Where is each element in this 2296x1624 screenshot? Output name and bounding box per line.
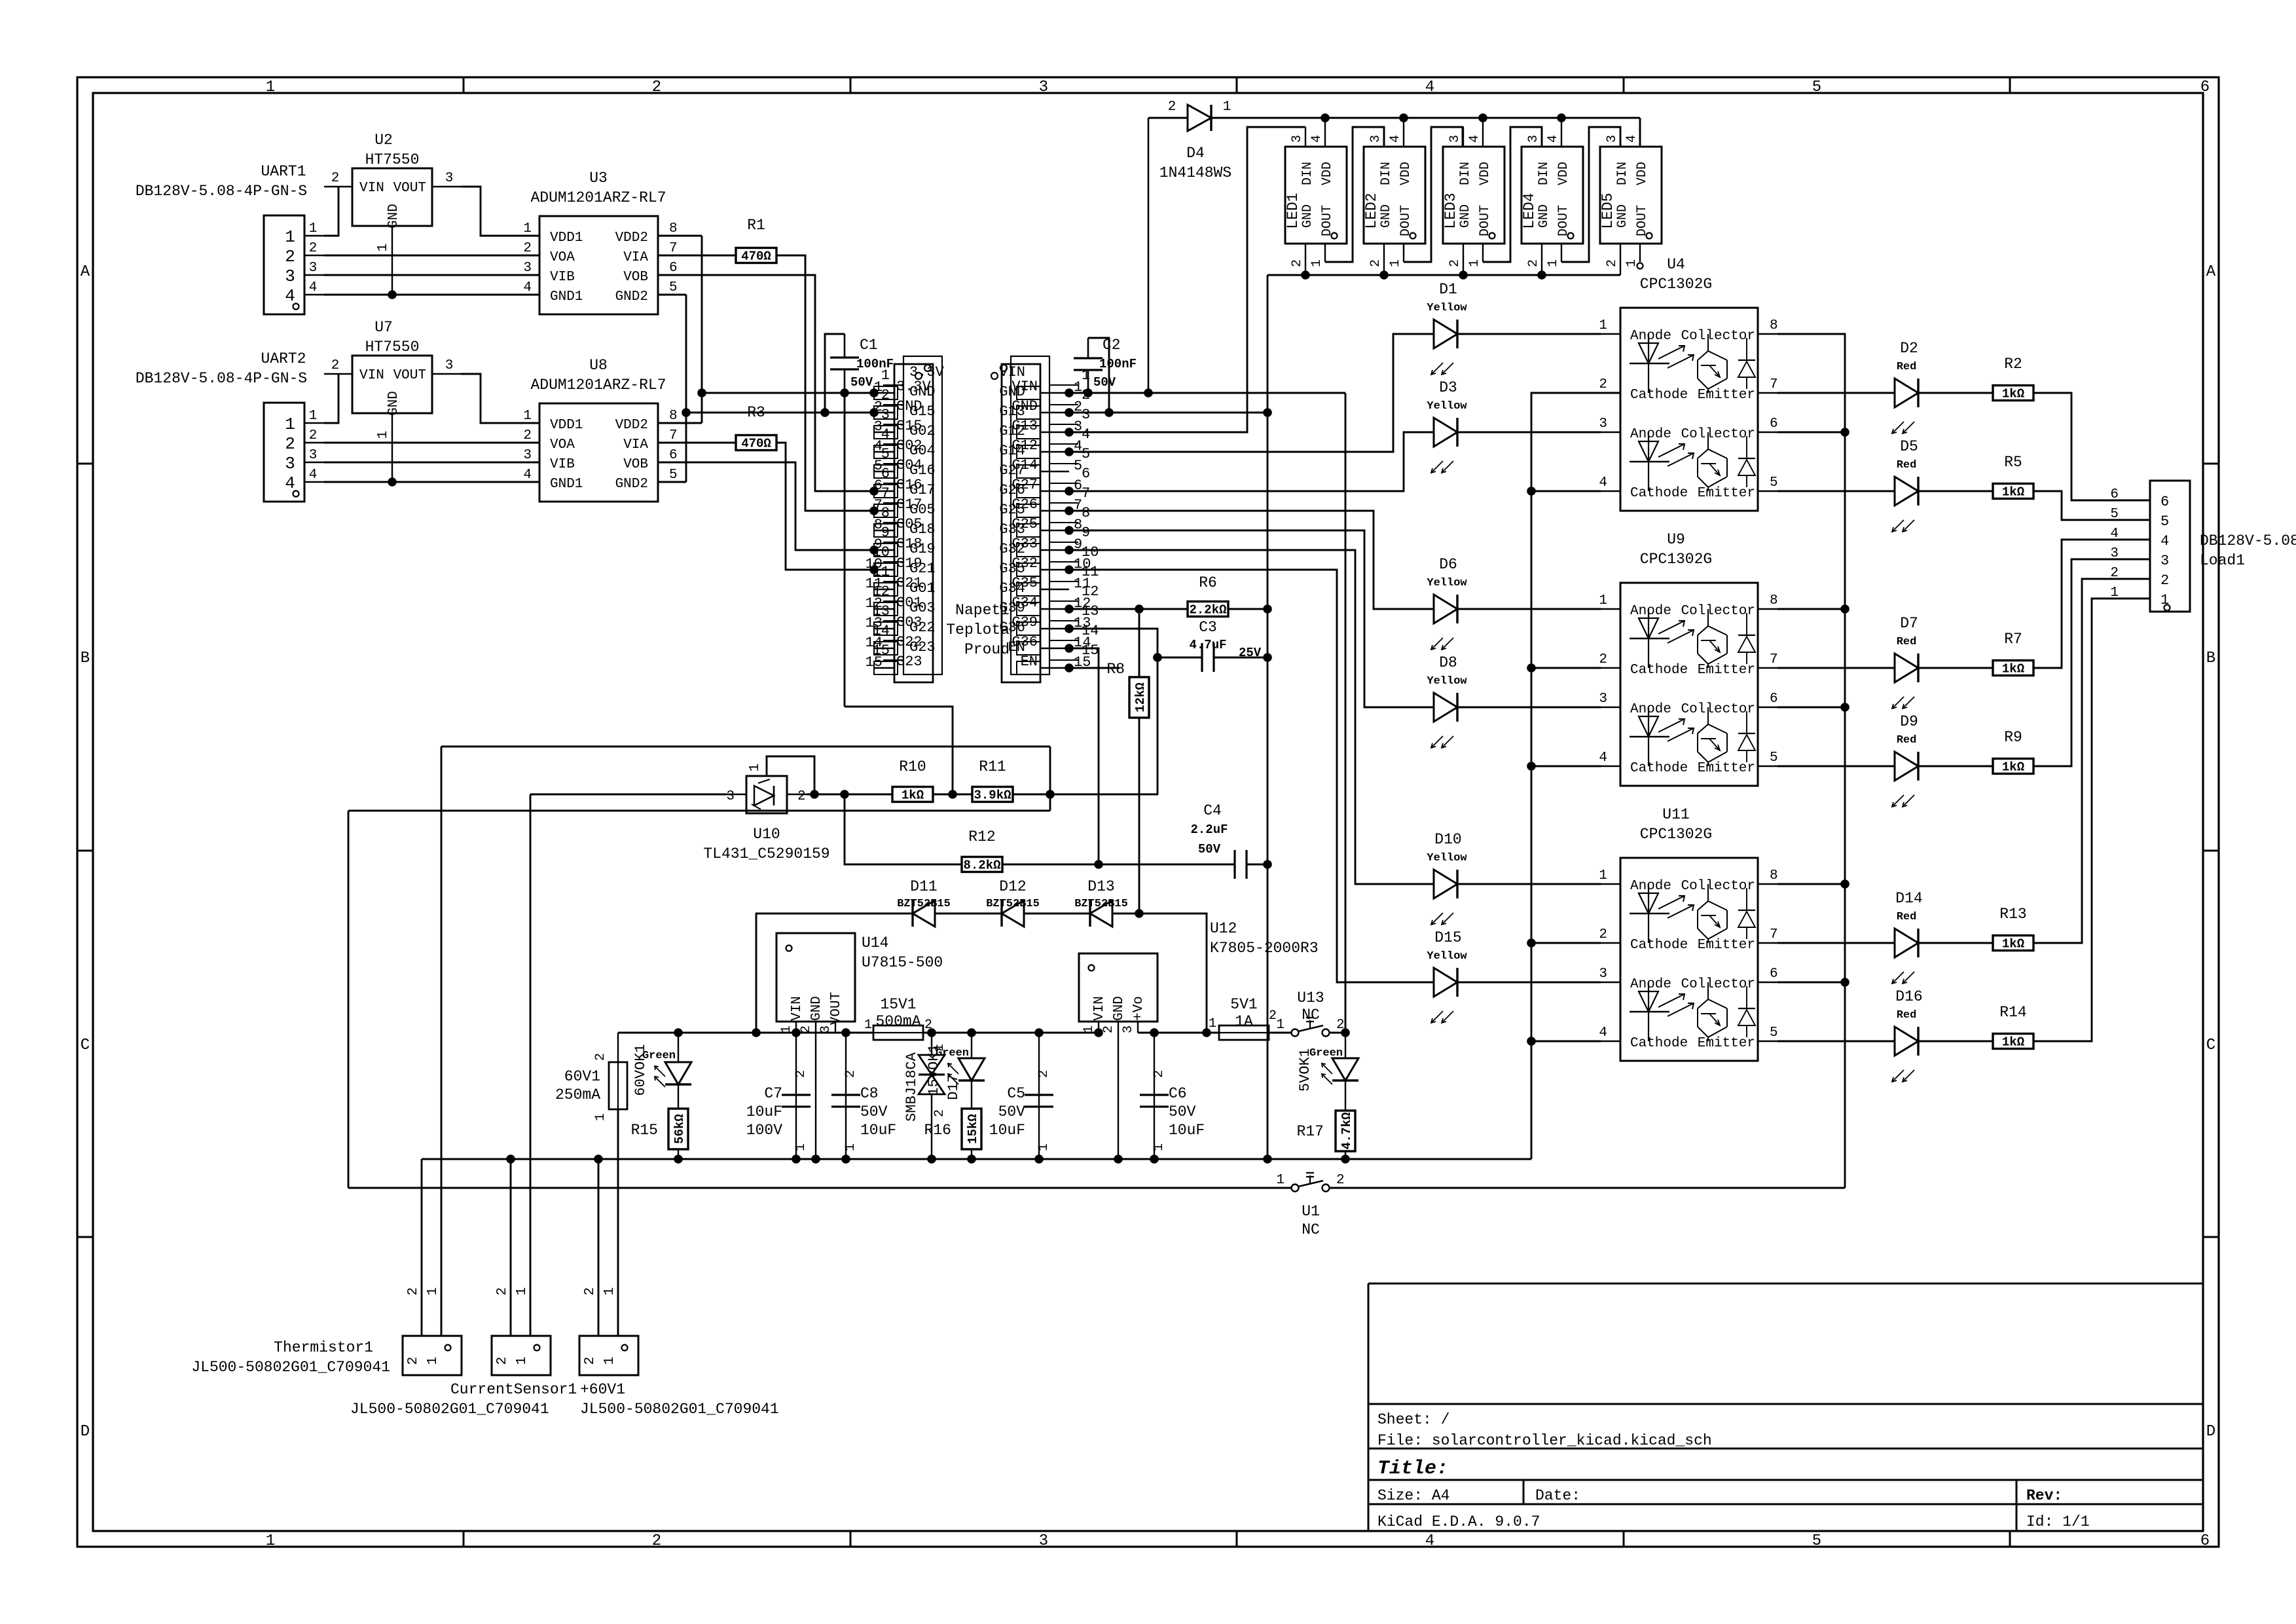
svg-text:1: 1 (376, 431, 391, 439)
svg-text:50V: 50V (998, 1103, 1026, 1120)
svg-text:1: 1 (748, 764, 763, 772)
diode D13 BZT52B15 (1090, 900, 1112, 927)
wire LED1 DOUT to LED2 DIN (1325, 127, 1384, 262)
svg-text:BZT52B15: BZT52B15 (1074, 898, 1128, 910)
svg-text:1: 1 (1223, 100, 1231, 115)
frame row ticks (77, 463, 93, 465)
capacitor C4 2.2uF 50V (1233, 850, 1235, 879)
svg-text:1kΩ: 1kΩ (2002, 760, 2024, 775)
svg-text:VOA: VOA (550, 250, 575, 265)
svg-text:13: 13 (873, 603, 890, 619)
svg-text:3: 3 (523, 261, 532, 276)
svg-text:1: 1 (266, 1532, 275, 1550)
LED module LED3 (1443, 147, 1504, 244)
svg-text:VDD: VDD (1398, 162, 1413, 185)
svg-text:U2: U2 (374, 132, 393, 149)
svg-text:Emitter: Emitter (1698, 663, 1755, 678)
pin 5 right header (1040, 471, 1069, 472)
diode D12 BZT52B15 (1002, 900, 1024, 927)
svg-text:10: 10 (1082, 544, 1099, 561)
svg-text:10uF: 10uF (989, 1122, 1025, 1139)
svg-text:15: 15 (1082, 642, 1099, 659)
pin 8 right header (1040, 530, 1069, 531)
svg-text:2: 2 (793, 1070, 809, 1078)
pin 5 left header (874, 471, 894, 472)
svg-text:10uF: 10uF (1169, 1122, 1205, 1139)
wire UART1.2 to U3 VOA (324, 255, 539, 257)
svg-text:2: 2 (523, 241, 532, 256)
wire D10 to U11.1 (1457, 883, 1601, 885)
svg-text:VOUT: VOUT (393, 368, 426, 383)
wire 5V vertical to U13 (1345, 393, 1347, 1033)
svg-text:4: 4 (1467, 135, 1482, 143)
connector +60V1 (579, 1336, 638, 1375)
svg-text:G01: G01 (909, 580, 936, 597)
svg-text:Proud: Proud (964, 641, 1010, 658)
svg-text:C1: C1 (860, 337, 878, 354)
wire LED2 DOUT to LED3 DIN (1404, 127, 1463, 262)
svg-text:3: 3 (1368, 135, 1383, 143)
wire U11.8 to collector bus (1777, 883, 1845, 885)
svg-text:C4: C4 (1203, 802, 1222, 819)
svg-text:56kΩ: 56kΩ (672, 1114, 687, 1144)
svg-text:Red: Red (1897, 636, 1917, 648)
svg-text:1: 1 (793, 1143, 809, 1151)
wire R14 to Load (2033, 599, 2150, 1041)
LED D7 Red (1777, 667, 1895, 669)
svg-text:U14: U14 (862, 934, 888, 951)
svg-text:4: 4 (1309, 135, 1324, 143)
op-amp U4 CPC1302G body (1620, 308, 1758, 511)
svg-text:6: 6 (1082, 466, 1090, 482)
svg-text:G12: G12 (999, 423, 1025, 439)
wire 60VOK1 to R15 (678, 1084, 679, 1109)
svg-text:3: 3 (1121, 1025, 1136, 1033)
svg-text:D17: D17 (945, 1074, 962, 1100)
title block column lines (1523, 1480, 1525, 1504)
svg-text:9: 9 (881, 525, 890, 541)
svg-text:3: 3 (1448, 135, 1463, 143)
svg-text:BZT52B15: BZT52B15 (897, 898, 951, 910)
capacitor C5 10uF 50V (1038, 1033, 1040, 1159)
junction LED3 VDD (1478, 113, 1487, 122)
svg-text:R12: R12 (968, 828, 995, 845)
wire U14 GND to GND rail (815, 1033, 816, 1159)
wire D15 to U11.3 (1457, 982, 1601, 984)
svg-text:10uF: 10uF (746, 1103, 782, 1120)
svg-text:4: 4 (1599, 750, 1607, 766)
svg-text:+60V1: +60V1 (580, 1381, 625, 1398)
svg-text:G26: G26 (999, 482, 1025, 498)
wire LED4 DOUT to LED5 DIN (1561, 127, 1620, 262)
svg-text:3: 3 (445, 171, 454, 186)
svg-text:3: 3 (1526, 135, 1541, 143)
svg-text:R16: R16 (924, 1122, 951, 1139)
svg-text:VDD1: VDD1 (550, 231, 583, 246)
svg-text:G13: G13 (999, 403, 1025, 420)
svg-text:ADUM1201ARZ-RL7: ADUM1201ARZ-RL7 (530, 189, 666, 206)
wire D3 to U4.3 (1457, 432, 1601, 434)
svg-text:6: 6 (669, 261, 678, 276)
svg-text:1kΩ: 1kΩ (2002, 387, 2024, 401)
wire G39 row to C3 branch (1069, 629, 1157, 657)
wire LED GND bus (1267, 274, 1620, 276)
svg-text:R11: R11 (979, 758, 1006, 775)
wire GND rail (422, 1158, 1531, 1160)
svg-text:A: A (81, 263, 90, 281)
resistor R2 1k (1993, 386, 2033, 401)
svg-text:VIN: VIN (999, 364, 1025, 380)
svg-text:50V: 50V (1198, 842, 1221, 857)
svg-text:U9: U9 (1667, 531, 1685, 548)
junction GND row (682, 408, 691, 417)
wire GND row (1069, 412, 1267, 414)
LED D6 Yellow (1434, 595, 1457, 623)
svg-text:A: A (2206, 263, 2216, 281)
pin 4 left header (874, 451, 894, 452)
svg-text:Cathode: Cathode (1630, 1036, 1688, 1051)
svg-text:4.7uF: 4.7uF (1189, 638, 1226, 652)
pin 11 right header (1040, 589, 1069, 590)
svg-text:10: 10 (873, 544, 890, 561)
svg-text:VOUT: VOUT (393, 181, 426, 196)
svg-text:GND2: GND2 (615, 289, 648, 304)
svg-text:C5: C5 (1007, 1085, 1025, 1102)
wire +60V1 pin2 drop (598, 1159, 600, 1336)
svg-text:D7: D7 (1900, 615, 1918, 632)
svg-text:1: 1 (376, 244, 391, 252)
diode D11 BZT52B15 (913, 900, 935, 927)
wire R9 to Load (2033, 559, 2150, 766)
wire R6 to GND drop (1228, 608, 1267, 610)
svg-text:G27: G27 (999, 462, 1025, 479)
wire 5V rail (1138, 1032, 1219, 1034)
wire Proud rail (348, 810, 1050, 812)
svg-text:Red: Red (1897, 1009, 1917, 1022)
svg-text:Green: Green (642, 1050, 676, 1062)
wire U3 VOB to header G16 (658, 275, 874, 491)
svg-text:U10: U10 (753, 826, 780, 843)
svg-text:Size: A4: Size: A4 (1377, 1487, 1449, 1504)
svg-text:R3: R3 (747, 404, 765, 421)
svg-text:2: 2 (2160, 572, 2169, 589)
wire R15 to GND rail (678, 1149, 679, 1159)
svg-text:Emitter: Emitter (1698, 938, 1755, 953)
capacitor C1 100nF (830, 356, 859, 358)
wire R16 to GND rail (971, 1149, 972, 1159)
svg-text:5V1: 5V1 (1230, 996, 1257, 1013)
wire TL431 row left (530, 794, 727, 796)
svg-text:Yellow: Yellow (1427, 852, 1467, 864)
connector UART2 (264, 403, 304, 502)
svg-text:6: 6 (1770, 692, 1778, 707)
svg-text:+Vo: +Vo (1131, 996, 1146, 1021)
svg-text:R2: R2 (2004, 356, 2022, 373)
LED module LED4 (1522, 147, 1583, 244)
svg-text:8: 8 (881, 505, 890, 521)
wire cathode tap (1531, 667, 1601, 669)
svg-text:4: 4 (2160, 533, 2169, 549)
svg-text:2: 2 (1290, 259, 1305, 267)
wire zener rail left (756, 913, 913, 1033)
svg-text:File: solarcontroller_kicad.ki: File: solarcontroller_kicad.kicad_sch (1377, 1432, 1712, 1449)
regulator U2 HT7550 (352, 168, 432, 226)
junction LED4 GND (1537, 270, 1546, 280)
pin 6 left header (874, 490, 894, 492)
svg-text:4: 4 (1388, 135, 1403, 143)
svg-text:Anode: Anode (1630, 604, 1671, 619)
resistor R15 56k (668, 1109, 688, 1149)
svg-text:8: 8 (1770, 868, 1778, 883)
LED module LED1 (1285, 147, 1347, 244)
svg-text:VIA: VIA (623, 437, 648, 452)
svg-text:R14: R14 (1999, 1004, 2026, 1021)
svg-text:D14: D14 (1895, 890, 1922, 907)
wire R13 to Load (2033, 579, 2150, 943)
svg-text:Collector: Collector (1681, 329, 1755, 344)
svg-text:G35: G35 (999, 561, 1025, 577)
svg-text:2: 2 (1368, 259, 1383, 267)
pin 15 right header (1040, 667, 1069, 669)
op-amp U9 CPC1302G body (1620, 583, 1758, 786)
wire cathode rail (1531, 393, 1620, 1159)
svg-text:1: 1 (309, 409, 318, 424)
svg-text:G34: G34 (999, 580, 1025, 597)
svg-text:VDD: VDD (1635, 162, 1650, 185)
svg-text:1: 1 (1276, 1173, 1285, 1188)
svg-text:6: 6 (669, 448, 678, 463)
svg-text:1: 1 (285, 227, 295, 247)
svg-text:C6: C6 (1169, 1085, 1187, 1102)
svg-text:G33: G33 (999, 521, 1025, 538)
svg-text:Load1: Load1 (2200, 552, 2245, 569)
junction 3.3V row (697, 388, 706, 397)
wire cathode tap (1531, 490, 1601, 492)
svg-text:VIN: VIN (1092, 996, 1107, 1021)
frame column ticks (463, 77, 465, 93)
wire LED GND bus drop vertical (1267, 275, 1269, 1159)
svg-text:U7: U7 (374, 319, 393, 336)
svg-text:VIB: VIB (550, 270, 575, 285)
svg-text:DB128V-5.08-4P-GN-S: DB128V-5.08-4P-GN-S (136, 183, 307, 200)
svg-text:G21: G21 (909, 561, 936, 577)
svg-text:1: 1 (426, 1357, 441, 1365)
wire R8 top (1139, 609, 1140, 677)
svg-text:GND: GND (809, 996, 824, 1021)
svg-text:4: 4 (309, 468, 318, 483)
svg-text:1: 1 (1388, 259, 1403, 267)
svg-text:Yellow: Yellow (1427, 950, 1467, 963)
svg-text:2: 2 (331, 358, 340, 373)
connector CurrentSensor1 (492, 1336, 551, 1375)
svg-text:2: 2 (285, 247, 295, 267)
svg-text:1kΩ: 1kΩ (2002, 1035, 2024, 1050)
wire D13 to 15V rail (1112, 913, 1207, 1033)
junction LED2 GND (1379, 270, 1389, 280)
svg-text:JL500-50802G01_C709041: JL500-50802G01_C709041 (350, 1401, 549, 1418)
capacitor C2 100nF (1074, 357, 1102, 359)
svg-text:UART1: UART1 (261, 163, 306, 180)
svg-text:VOUT: VOUT (829, 992, 844, 1025)
svg-text:1: 1 (1309, 259, 1324, 267)
svg-text:GND: GND (1300, 204, 1315, 228)
svg-text:GND: GND (1537, 204, 1552, 228)
LED D16 Red (1777, 1041, 1895, 1043)
pin 9 left header (874, 549, 894, 551)
svg-text:12kΩ: 12kΩ (1133, 682, 1148, 712)
svg-text:ADUM1201ARZ-RL7: ADUM1201ARZ-RL7 (530, 377, 666, 394)
svg-text:LED5: LED5 (1599, 193, 1616, 229)
pin 8 left header (874, 530, 894, 531)
wire TL431 rail to U1 (348, 1187, 1291, 1189)
svg-text:4: 4 (1599, 1025, 1607, 1041)
svg-text:K7805-2000R3: K7805-2000R3 (1210, 940, 1319, 957)
svg-text:R1: R1 (747, 217, 765, 234)
svg-text:R6: R6 (1199, 574, 1217, 591)
svg-text:3: 3 (726, 789, 735, 804)
svg-text:Cathode: Cathode (1630, 938, 1688, 953)
svg-text:R15: R15 (631, 1122, 658, 1139)
svg-text:Red: Red (1897, 734, 1917, 747)
svg-text:2: 2 (495, 1357, 510, 1365)
svg-text:Emitter: Emitter (1698, 486, 1755, 501)
svg-text:D1: D1 (1439, 281, 1457, 298)
svg-text:5: 5 (1770, 1025, 1778, 1041)
svg-text:G16: G16 (909, 462, 936, 479)
svg-text:G05: G05 (909, 502, 936, 518)
svg-text:Emitter: Emitter (1698, 761, 1755, 776)
svg-text:100V: 100V (746, 1122, 782, 1139)
svg-text:DOUT: DOUT (1320, 205, 1335, 236)
svg-text:3: 3 (1290, 135, 1305, 143)
svg-text:3: 3 (1599, 967, 1607, 982)
svg-text:LED2: LED2 (1363, 193, 1380, 229)
svg-text:1: 1 (1546, 259, 1561, 267)
svg-text:4: 4 (1624, 135, 1639, 143)
svg-text:Emitter: Emitter (1698, 1036, 1755, 1051)
svg-text:U11: U11 (1662, 806, 1689, 823)
svg-text:G18: G18 (909, 521, 936, 538)
svg-text:4: 4 (285, 286, 295, 306)
svg-text:R7: R7 (2004, 631, 2022, 648)
wire U1 to collector bus (1330, 1187, 1845, 1189)
LED D5 Red (1777, 490, 1895, 492)
wire UART1.3 to U3 VIB (324, 274, 539, 276)
wire 60V rail (618, 1032, 835, 1034)
wire sense row extension (1050, 794, 1158, 796)
junction U2 GND on GND1 wire (388, 290, 397, 299)
svg-text:2: 2 (652, 79, 661, 96)
resistor R12 8.2k (962, 857, 1002, 872)
wire U11.6 to collector bus (1777, 982, 1845, 984)
wire LED5 VDD corner (1639, 118, 1641, 147)
svg-text:2: 2 (2110, 566, 2119, 581)
svg-text:Anode: Anode (1630, 702, 1671, 717)
svg-text:D13: D13 (1087, 878, 1114, 895)
svg-text:3: 3 (1039, 79, 1048, 96)
svg-text:DOUT: DOUT (1635, 205, 1650, 236)
svg-text:Rev:: Rev: (2026, 1487, 2062, 1504)
svg-text:1N4148WS: 1N4148WS (1159, 164, 1231, 181)
resistor R16 15k (962, 1109, 981, 1149)
junction LED2 VDD (1399, 113, 1408, 122)
wire 5V to U13 (1269, 1032, 1291, 1034)
svg-text:G23: G23 (896, 654, 922, 670)
svg-text:TL431_C5290159: TL431_C5290159 (703, 845, 829, 862)
svg-text:DOUT: DOUT (1556, 205, 1571, 236)
LED D15 Yellow (1434, 968, 1457, 997)
svg-text:1: 1 (1152, 1143, 1167, 1151)
svg-text:2: 2 (1168, 100, 1176, 115)
resistor R5 1k (1993, 484, 2033, 499)
wire G27 row to D6 (1069, 511, 1434, 609)
connector UART1 (264, 215, 304, 314)
svg-text:B: B (81, 650, 90, 667)
resistor R9 1k (1993, 759, 2033, 774)
svg-text:Red: Red (1897, 361, 1917, 373)
junction LED4 VDD (1557, 113, 1566, 122)
wire D8 to U9.3 (1457, 707, 1601, 709)
svg-text:3: 3 (1599, 692, 1607, 707)
wire U7 VOUT to U8 VDD1 (461, 374, 539, 423)
LED D8 Yellow (1434, 693, 1457, 722)
svg-text:DB128V-5.08: DB128V-5.08 (2200, 532, 2296, 549)
svg-text:1: 1 (1599, 868, 1607, 883)
svg-text:R13: R13 (1999, 906, 2026, 923)
svg-text:Thermistor1: Thermistor1 (274, 1339, 373, 1356)
svg-text:7: 7 (1770, 377, 1778, 392)
junction LED3 GND (1459, 270, 1468, 280)
svg-text:2: 2 (797, 789, 806, 804)
svg-text:2: 2 (495, 1287, 510, 1296)
svg-text:2: 2 (1152, 1070, 1167, 1078)
pin 3 right header (1040, 432, 1069, 433)
pin 12 left header (874, 608, 894, 610)
svg-text:1kΩ: 1kΩ (902, 788, 924, 803)
svg-text:4: 4 (1546, 135, 1561, 143)
wire R1 to header G17 (776, 255, 874, 511)
svg-text:3: 3 (309, 448, 318, 463)
LED5 DOUT open (1637, 263, 1643, 269)
svg-text:2: 2 (593, 1053, 608, 1061)
svg-text:U3: U3 (589, 170, 608, 187)
svg-text:1: 1 (309, 221, 318, 236)
svg-text:1: 1 (2110, 585, 2119, 600)
svg-text:25V: 25V (1239, 646, 1262, 660)
svg-text:G25: G25 (999, 502, 1025, 518)
LED D1 Yellow (1434, 320, 1457, 348)
wire 3.3V sense drop (844, 393, 846, 707)
svg-text:B: B (2206, 650, 2215, 667)
svg-text:Green: Green (936, 1047, 969, 1060)
wire C3 left vertical (1157, 657, 1159, 794)
svg-text:Anode: Anode (1630, 427, 1671, 442)
wire U4.6 to collector bus (1777, 432, 1845, 434)
svg-text:D12: D12 (999, 878, 1026, 895)
svg-text:6: 6 (2200, 1532, 2210, 1550)
svg-text:D11: D11 (910, 878, 937, 895)
pin 10 right header (1040, 569, 1069, 570)
svg-text:4: 4 (1425, 79, 1434, 96)
svg-text:R17: R17 (1297, 1123, 1324, 1140)
svg-text:2: 2 (652, 1532, 661, 1550)
capacitor C8 10uF 50V (845, 1033, 847, 1159)
svg-text:VIN: VIN (359, 368, 384, 383)
svg-text:Red: Red (1897, 459, 1917, 471)
svg-text:HT7550: HT7550 (365, 339, 420, 356)
svg-text:6: 6 (2160, 494, 2169, 510)
wire CurrentSensor pin2 drop (510, 1159, 512, 1336)
